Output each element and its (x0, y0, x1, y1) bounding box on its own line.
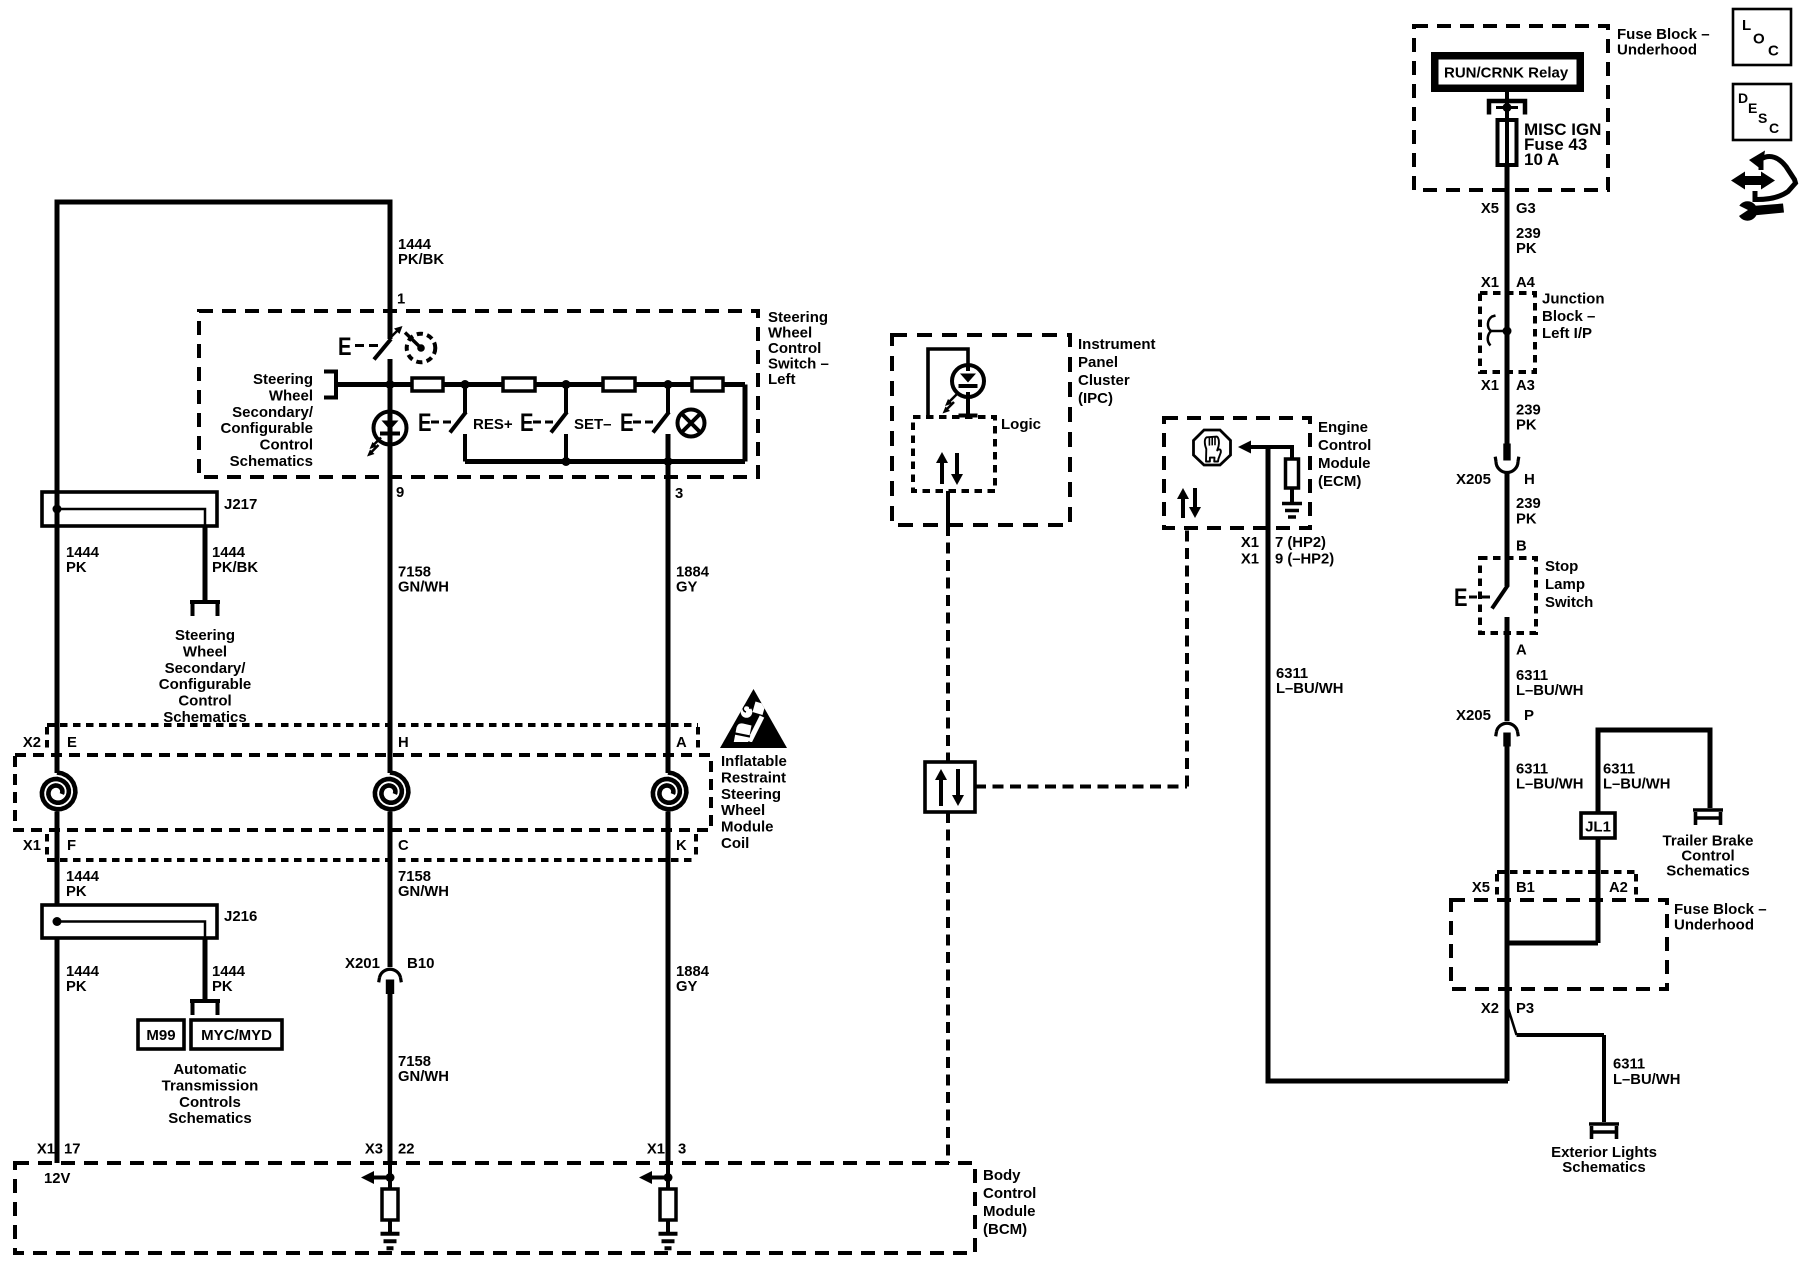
label Fuse Block - Underhood (top) (1617, 26, 1710, 59)
wire logic to IPC edge (946, 491, 950, 525)
svg-text:X1: X1 (37, 1142, 55, 1158)
label 1444 PK (below J216 right) (212, 964, 246, 995)
BCM input arrow (pin 3) (639, 1163, 673, 1189)
svg-text:E: E (67, 735, 77, 751)
wire 7158 GN/WH (X201 to BCM) (388, 994, 393, 1163)
LED indicator (IPC telltale) (943, 365, 985, 414)
Junction Block - Left I/P box (1480, 293, 1535, 372)
label X3 22 (BCM pin) (365, 1142, 415, 1158)
Fuse Block - Underhood box (bottom) (1451, 900, 1667, 989)
svg-text:Secondary/: Secondary/ (165, 660, 247, 677)
wire 6311 L-BU/WH (ECM to junction) (1268, 447, 1508, 1081)
label X2 P3 (1481, 1001, 1534, 1017)
resistor R2 (503, 378, 535, 391)
svg-text:GN/WH: GN/WH (398, 580, 449, 596)
hand icon (1205, 437, 1221, 462)
dashed serial data wire (IPC down) (946, 525, 950, 762)
label Fuse Block - Underhood (bottom) (1674, 901, 1767, 934)
svg-text:GY: GY (676, 580, 698, 596)
svg-text:J217: J217 (224, 496, 257, 513)
svg-text:1: 1 (397, 292, 405, 308)
svg-text:X1: X1 (1241, 552, 1259, 568)
label 6311 L-BU/WH (left of JL1 branch) (1516, 762, 1583, 793)
svg-text:H: H (1524, 471, 1535, 488)
label 6311 L-BU/WH (JL1 branch) (1603, 762, 1670, 793)
svg-text:Instrument: Instrument (1078, 336, 1156, 353)
resistor (ECM pullup) (1286, 459, 1299, 488)
svg-text:Automatic: Automatic (173, 1061, 246, 1078)
svg-text:PK: PK (66, 979, 87, 995)
label Steering Wheel Secondary/Configurable Control Schematics (159, 627, 252, 726)
label Instrument Panel Cluster (IPC) (1078, 336, 1156, 407)
svg-text:Wheel: Wheel (721, 802, 765, 819)
coil spiral 2 (375, 773, 409, 810)
svg-text:Engine: Engine (1318, 419, 1368, 436)
svg-text:12V: 12V (44, 1171, 70, 1187)
svg-text:Panel: Panel (1078, 354, 1118, 371)
svg-text:C: C (1768, 43, 1779, 60)
connector bracket to Steering Wheel Secondary schematics (in-box) (324, 372, 336, 398)
Logic box (913, 417, 995, 491)
wire jog to exterior lights (1508, 1008, 1517, 1035)
svg-text:Switch –: Switch – (768, 356, 829, 373)
svg-text:A: A (1516, 643, 1527, 659)
svg-text:9: 9 (396, 485, 404, 501)
svg-text:Coil: Coil (721, 835, 749, 852)
lamp L1 (circle-X) (678, 410, 705, 437)
junction block bus element (1488, 316, 1512, 346)
label 7158 GN/WH (above coil) (398, 565, 449, 596)
svg-text:Control: Control (1318, 437, 1371, 454)
svg-text:10 A: 10 A (1524, 150, 1559, 169)
svg-text:Wheel: Wheel (183, 643, 227, 660)
label 6311 L-BU/WH (below A) (1516, 668, 1583, 699)
Body Control Module (BCM) box (15, 1163, 975, 1253)
svg-text:A2: A2 (1609, 880, 1628, 896)
label 1884 GY (above coil) (676, 565, 710, 596)
svg-text:X5: X5 (1472, 880, 1490, 896)
svg-text:7158: 7158 (398, 1054, 431, 1070)
svg-text:Inflatable: Inflatable (721, 753, 787, 770)
svg-text:9 (–HP2): 9 (–HP2) (1275, 552, 1334, 568)
svg-text:Control: Control (983, 1185, 1036, 1202)
svg-text:L–BU/WH: L–BU/WH (1516, 683, 1583, 699)
svg-text:Configurable: Configurable (221, 420, 314, 437)
switch bus wire (336, 382, 745, 387)
label 239 PK (2) (1516, 403, 1541, 434)
svg-text:Body: Body (983, 1167, 1021, 1184)
nav icon LOC (1733, 9, 1791, 65)
svg-text:Secondary/: Secondary/ (232, 404, 314, 421)
svg-text:Left: Left (768, 371, 796, 388)
wire 239 PK (fuse down) (1505, 165, 1510, 444)
wire to secondary schematics bracket (203, 526, 208, 600)
svg-text:Module: Module (1318, 455, 1371, 472)
label 239 PK (3) (1516, 496, 1541, 528)
dashed serial data wire (box to BCM) (946, 812, 950, 1163)
svg-text:6311: 6311 (1276, 666, 1308, 682)
svg-text:X2: X2 (1481, 1001, 1499, 1017)
label 6311 L-BU/WH (ECM) (1276, 666, 1343, 697)
nav icon arrows and wrench (1731, 151, 1796, 221)
label X1 A3 (1481, 378, 1535, 394)
svg-text:Restraint: Restraint (721, 769, 786, 786)
Engine Control Module (ECM) box (1164, 418, 1310, 528)
svg-text:F: F (67, 838, 76, 854)
resistor R4 (692, 378, 723, 391)
svg-text:C: C (1769, 120, 1779, 136)
logic up arrow (936, 452, 948, 484)
fuse holder clip (1489, 101, 1525, 115)
wire 6311 L-BU/WH (X205 P down) (1505, 747, 1510, 1082)
connector row X1 (F C K) (47, 834, 696, 860)
svg-text:239: 239 (1516, 403, 1541, 419)
svg-text:1884: 1884 (676, 964, 710, 980)
wire 7158 GN/WH (switch to coil) (388, 359, 393, 773)
svg-text:Wheel: Wheel (269, 387, 313, 404)
IPC driver block (928, 349, 968, 417)
svg-text:SET–: SET– (574, 416, 612, 433)
svg-text:6311: 6311 (1516, 762, 1548, 778)
svg-text:6311: 6311 (1613, 1057, 1645, 1073)
label X1 A4 (1481, 275, 1536, 291)
svg-text:X1: X1 (23, 838, 41, 854)
svg-text:Steering: Steering (721, 786, 781, 803)
svg-text:Controls: Controls (179, 1094, 241, 1111)
connector MYC/MYD (191, 1020, 282, 1049)
wire to transmission schematics bracket (203, 938, 208, 999)
svg-text:A4: A4 (1516, 275, 1536, 291)
label Exterior Lights Schematics (1551, 1144, 1657, 1176)
label 1444 PK (below X1 F) (66, 869, 100, 900)
wire JL1 to fuse block (1508, 838, 1598, 943)
svg-text:Schematics: Schematics (230, 453, 313, 470)
wire 1444 PK (left drop) (55, 493, 60, 773)
svg-text:Schematics: Schematics (168, 1110, 251, 1127)
label 7158 GN/WH (below X201) (398, 1054, 449, 1085)
svg-text:G3: G3 (1516, 201, 1536, 217)
svg-text:(BCM): (BCM) (983, 1221, 1027, 1238)
svg-text:L–BU/WH: L–BU/WH (1603, 777, 1670, 793)
label Inflatable Restraint Steering Wheel Module Coil (721, 753, 787, 852)
label X205 H (1456, 471, 1535, 488)
stop lamp switch blade (1454, 584, 1508, 612)
wire 6311 L-BU/WH (switch to X205 P) (1505, 617, 1510, 721)
svg-text:MYC/MYD: MYC/MYD (201, 1027, 272, 1044)
svg-text:Steering: Steering (768, 309, 828, 326)
svg-text:X201: X201 (345, 955, 380, 972)
resistor R3 (603, 378, 635, 391)
inline connector X201 B10 (379, 969, 402, 994)
label Junction Block - Left I/P (1542, 291, 1605, 343)
wire 6311 branch (JL1 / trailer brake) (1598, 730, 1710, 813)
svg-text:3: 3 (675, 486, 683, 502)
svg-text:Configurable: Configurable (159, 676, 252, 693)
svg-text:D: D (1738, 90, 1748, 106)
svg-text:Stop: Stop (1545, 558, 1578, 575)
svg-text:Module: Module (983, 1203, 1036, 1220)
svg-text:Fuse Block –: Fuse Block – (1674, 901, 1767, 918)
svg-text:Underhood: Underhood (1617, 42, 1697, 59)
svg-text:JL1: JL1 (1585, 819, 1611, 836)
wire 1884 GY (lamp rail down) (666, 434, 671, 773)
svg-text:239: 239 (1516, 496, 1541, 512)
svg-text:K: K (676, 838, 687, 854)
svg-text:GN/WH: GN/WH (398, 884, 449, 900)
ECM internal wire to resistor (1268, 447, 1292, 459)
svg-text:X1: X1 (647, 1142, 665, 1158)
svg-text:Control: Control (178, 693, 231, 710)
label X1 9 (-HP2) (1241, 552, 1334, 568)
svg-text:PK: PK (212, 979, 233, 995)
fuse MISC IGN 43 (1498, 120, 1517, 165)
svg-text:B1: B1 (1516, 880, 1535, 896)
svg-text:PK: PK (1516, 512, 1537, 528)
label X1 7 (HP2) (1241, 535, 1326, 551)
switch S4 lamp switch (620, 385, 669, 438)
svg-text:L–BU/WH: L–BU/WH (1276, 681, 1343, 697)
svg-text:B: B (1516, 539, 1527, 555)
airbag warning triangle (720, 689, 787, 748)
logic down arrow (951, 453, 963, 485)
svg-text:E: E (520, 409, 534, 437)
svg-text:L–BU/WH: L–BU/WH (1613, 1072, 1680, 1088)
svg-text:X3: X3 (365, 1142, 383, 1158)
svg-text:Steering: Steering (175, 627, 235, 644)
svg-text:6311: 6311 (1516, 668, 1548, 684)
label Steering Wheel Secondary/Configurable Control Schematics (in-box) (221, 371, 314, 470)
connector row X2 (E H A) (47, 725, 698, 753)
ground (ECM) (1282, 488, 1302, 517)
Inflatable Restraint Steering Wheel Module Coil box (15, 755, 711, 830)
svg-text:P: P (1524, 707, 1534, 724)
switch S2 RES+ (418, 385, 466, 462)
wire 1884 GY (coil to BCM) (666, 812, 671, 1164)
wire 1444 PK (J216 down to BCM) (55, 938, 60, 1163)
svg-text:A3: A3 (1516, 378, 1535, 394)
svg-text:Logic: Logic (1001, 416, 1041, 433)
svg-text:X205: X205 (1456, 471, 1491, 488)
svg-text:S: S (1758, 110, 1767, 126)
label Trailer Brake Control Schematics (1663, 833, 1754, 880)
svg-text:Transmission: Transmission (162, 1077, 259, 1094)
relay RUN/CRNK (1431, 52, 1584, 92)
svg-text:Wheel: Wheel (768, 325, 812, 342)
svg-text:O: O (1753, 31, 1765, 48)
svg-text:PK/BK: PK/BK (212, 560, 258, 576)
svg-text:1444: 1444 (66, 964, 100, 980)
label X1 3 (BCM pin) (647, 1142, 686, 1158)
svg-text:PK: PK (1516, 241, 1537, 257)
splice pack J216 (42, 905, 217, 938)
BCM input arrow (pin 22) (361, 1163, 395, 1189)
off-page bracket (transmission schematics) (190, 1001, 220, 1015)
svg-text:J216: J216 (224, 908, 257, 925)
connector JL1 (1581, 813, 1615, 838)
svg-text:X1: X1 (1481, 275, 1499, 291)
svg-text:7 (HP2): 7 (HP2) (1275, 535, 1326, 551)
svg-text:E: E (1454, 584, 1468, 612)
svg-text:C: C (398, 838, 409, 854)
inline connector X205 P (1496, 723, 1519, 746)
switch lower rail (465, 385, 745, 462)
svg-text:Junction: Junction (1542, 291, 1605, 308)
svg-text:PK: PK (1516, 418, 1537, 434)
svg-text:Cluster: Cluster (1078, 372, 1130, 389)
svg-text:Fuse Block –: Fuse Block – (1617, 26, 1710, 43)
wire 239 PK (X205 to stop lamp switch) (1505, 473, 1510, 586)
svg-text:X1: X1 (1241, 535, 1259, 551)
svg-text:E: E (418, 409, 432, 437)
label X5 G3 (1481, 201, 1536, 217)
svg-text:A: A (676, 735, 687, 751)
svg-text:22: 22 (398, 1142, 414, 1158)
svg-text:Schematics: Schematics (1666, 863, 1749, 880)
coil spiral 3 (653, 773, 687, 810)
svg-text:E: E (338, 333, 352, 361)
ECM up arrow (1177, 488, 1189, 518)
label MISC IGN Fuse 43 10 A (1524, 120, 1601, 169)
label Automatic Transmission Controls Schematics (162, 1061, 259, 1127)
svg-text:PK: PK (66, 884, 87, 900)
svg-text:GY: GY (676, 979, 698, 995)
serial data exchange box (925, 762, 975, 812)
resistor (BCM pin 3 pulldown) (660, 1189, 676, 1220)
svg-text:L: L (1742, 17, 1751, 34)
wire relay to fuse (1505, 92, 1509, 120)
svg-text:(IPC): (IPC) (1078, 390, 1113, 407)
svg-text:GN/WH: GN/WH (398, 1069, 449, 1085)
splice pack J217 (42, 492, 217, 526)
wire 1444 PK/BK feed: top-left run (57, 202, 390, 493)
label 1444 PK (below J216 left) (66, 964, 100, 995)
cruise speedometer icon (405, 333, 435, 363)
dashed serial data wire (box to ECM) (975, 528, 1187, 787)
IPC lamp drop bar (959, 397, 978, 416)
svg-text:Left I/P: Left I/P (1542, 325, 1592, 342)
off-page bracket (exterior lights) (1589, 1124, 1619, 1139)
svg-text:17: 17 (64, 1142, 80, 1158)
svg-text:Schematics: Schematics (1562, 1159, 1645, 1176)
svg-text:E: E (1748, 100, 1757, 116)
label 239 PK (1) (1516, 226, 1541, 257)
svg-text:1444: 1444 (212, 964, 246, 980)
label 1444 PK (below J217 left) (66, 545, 100, 576)
label 1444 PK/BK (top) (398, 237, 444, 268)
svg-text:B10: B10 (407, 955, 435, 972)
ECM stop request arrow (1238, 441, 1268, 454)
switch S3 SET- (520, 385, 567, 462)
svg-text:E: E (620, 409, 634, 437)
svg-text:Underhood: Underhood (1674, 917, 1754, 934)
switch S1 cruise on/off (E dashes, blade, arrow) (338, 326, 403, 361)
label 6311 L-BU/WH (exterior branch) (1613, 1057, 1680, 1089)
svg-text:1444: 1444 (212, 545, 246, 561)
label X1 17 (BCM pin) (37, 1142, 81, 1158)
svg-text:Switch: Switch (1545, 594, 1593, 611)
node rail junctions (562, 457, 673, 466)
Steering Wheel Control Switch - Left box (199, 311, 758, 477)
resistor R1 (412, 378, 443, 391)
svg-text:M99: M99 (146, 1027, 175, 1044)
Stop Lamp Switch box (1480, 558, 1536, 633)
svg-text:1884: 1884 (676, 565, 710, 581)
svg-text:3: 3 (678, 1142, 686, 1158)
label 7158 GN/WH (below X1 C) (398, 869, 449, 900)
octagon stop symbol U1 (1194, 430, 1231, 465)
svg-text:H: H (398, 735, 409, 751)
svg-text:PK/BK: PK/BK (398, 252, 444, 268)
svg-text:PK: PK (66, 560, 87, 576)
off-page bracket (trailer brake) (1693, 810, 1723, 825)
svg-text:X5: X5 (1481, 201, 1499, 217)
connector M99 (138, 1020, 184, 1049)
svg-text:Module: Module (721, 819, 774, 836)
svg-text:7158: 7158 (398, 869, 431, 885)
svg-text:7158: 7158 (398, 565, 431, 581)
ECM down arrow (1189, 488, 1201, 518)
wire 1444 PK (coil to J216) (55, 812, 60, 906)
off-page bracket (secondary schematics) (190, 602, 220, 616)
ground (BCM pin 3) (659, 1220, 678, 1248)
svg-text:1444: 1444 (66, 869, 100, 885)
svg-text:RES+: RES+ (473, 416, 513, 433)
node bus junctions (386, 380, 673, 389)
label 1884 GY (below K) (676, 964, 710, 995)
Instrument Panel Cluster (IPC) box (892, 335, 1070, 525)
label Engine Control Module (ECM) (1318, 419, 1371, 490)
resistor (BCM pin 22 pulldown) (382, 1189, 398, 1220)
svg-text:1444: 1444 (398, 237, 432, 253)
inline connector X205 H (1495, 444, 1519, 473)
svg-text:RUN/CRNK Relay: RUN/CRNK Relay (1444, 65, 1569, 82)
svg-text:6311: 6311 (1603, 762, 1635, 778)
svg-text:Control: Control (260, 437, 313, 454)
label Steering Wheel Control Switch - Left (768, 309, 829, 388)
ground (BCM pin 22) (381, 1220, 400, 1248)
Fuse Block - Underhood box (top) (1414, 26, 1608, 190)
coil spiral 1 (42, 773, 76, 810)
svg-text:Lamp: Lamp (1545, 576, 1585, 593)
svg-text:L–BU/WH: L–BU/WH (1516, 777, 1583, 793)
svg-text:P3: P3 (1516, 1001, 1534, 1017)
LED indicator D1 (367, 412, 407, 457)
svg-text:Control: Control (768, 340, 821, 357)
svg-text:Steering: Steering (253, 371, 313, 388)
nav icon DESC (1733, 84, 1791, 140)
label X205 P (1456, 707, 1534, 724)
svg-text:1444: 1444 (66, 545, 100, 561)
svg-text:(ECM): (ECM) (1318, 473, 1361, 490)
connector row X5 (B1 A2) (1497, 872, 1636, 898)
label Stop Lamp Switch (1545, 558, 1593, 611)
svg-text:239: 239 (1516, 226, 1541, 242)
svg-text:Block –: Block – (1542, 308, 1595, 325)
wire 7158 GN/WH (coil to X201) (388, 812, 393, 968)
svg-text:X2: X2 (23, 735, 41, 751)
svg-text:X1: X1 (1481, 378, 1499, 394)
svg-text:X205: X205 (1456, 707, 1491, 724)
label 1444 PK/BK (below J217 right) (212, 545, 258, 576)
label Body Control Module (BCM) (983, 1167, 1036, 1238)
